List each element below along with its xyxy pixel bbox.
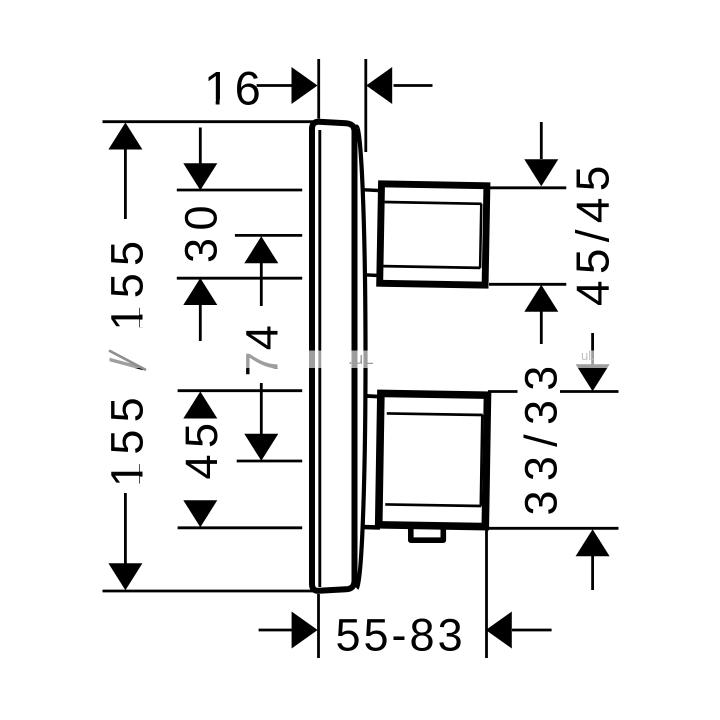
svg-text:30: 30 bbox=[176, 198, 227, 263]
svg-text:16: 16 bbox=[204, 61, 265, 114]
svg-text:ul.: ul. bbox=[581, 348, 595, 363]
svg-text:45/45: 45/45 bbox=[567, 159, 619, 306]
svg-text:.uL: .uL bbox=[348, 349, 375, 368]
svg-text:45: 45 bbox=[176, 416, 227, 479]
svg-text:74: 74 bbox=[237, 324, 288, 376]
svg-text:55-83: 55-83 bbox=[336, 610, 466, 661]
svg-text:33/33: 33/33 bbox=[516, 356, 567, 515]
